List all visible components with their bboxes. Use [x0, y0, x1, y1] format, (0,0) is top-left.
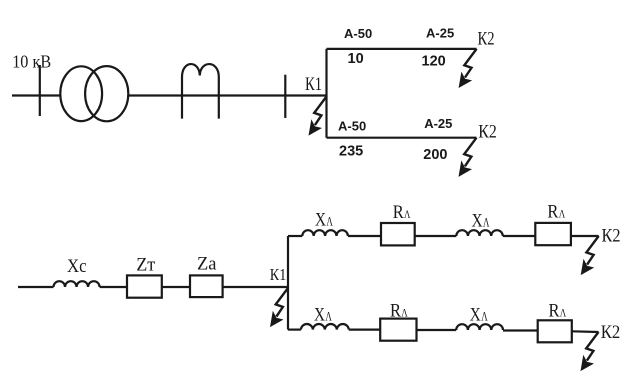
svg-text:Λ: Λ — [481, 309, 488, 323]
svg-text:К2: К2 — [602, 226, 621, 247]
svg-text:Λ: Λ — [326, 214, 333, 228]
svg-text:К2: К2 — [478, 121, 497, 142]
svg-text:10: 10 — [348, 51, 364, 67]
svg-text:R: R — [390, 300, 401, 321]
svg-text:10 кВ: 10 кВ — [12, 52, 51, 72]
svg-text:Λ: Λ — [559, 208, 566, 220]
svg-text:Λ: Λ — [560, 307, 567, 319]
svg-text:235: 235 — [339, 143, 363, 159]
svg-text:Zт: Zт — [136, 255, 156, 276]
svg-text:Zа: Zа — [197, 254, 217, 275]
svg-text:Х: Х — [470, 304, 481, 325]
svg-text:К2: К2 — [478, 29, 495, 50]
svg-text:Λ: Λ — [325, 309, 332, 323]
svg-text:Х: Х — [315, 209, 326, 230]
svg-text:R: R — [393, 202, 404, 223]
svg-text:А-25: А-25 — [424, 116, 452, 131]
svg-text:Λ: Λ — [404, 209, 411, 221]
svg-text:R: R — [549, 300, 560, 321]
svg-text:Хс: Хс — [67, 256, 87, 277]
svg-text:А-50: А-50 — [338, 118, 366, 133]
svg-text:Х: Х — [314, 304, 325, 325]
svg-text:А-50: А-50 — [344, 26, 372, 41]
svg-text:120: 120 — [422, 54, 446, 70]
svg-text:Х: Х — [472, 211, 483, 232]
svg-text:R: R — [547, 201, 558, 222]
svg-text:Λ: Λ — [483, 216, 490, 230]
svg-text:К2: К2 — [601, 322, 621, 343]
svg-text:К1: К1 — [305, 74, 322, 95]
svg-text:К1: К1 — [270, 265, 287, 284]
svg-text:200: 200 — [423, 147, 447, 163]
svg-text:Λ: Λ — [401, 307, 408, 319]
svg-text:А-25: А-25 — [426, 25, 454, 40]
